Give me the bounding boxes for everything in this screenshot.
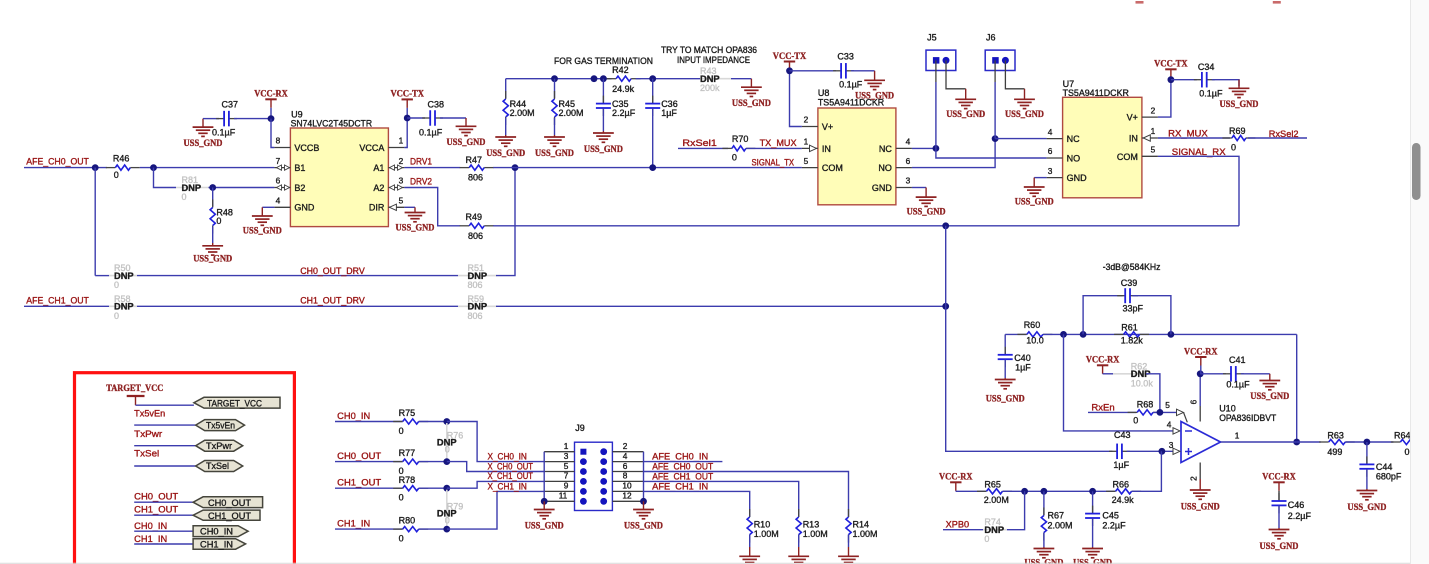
node RxEn — [1091, 403, 1114, 413]
junction — [649, 75, 656, 82]
pin 5 — [1165, 400, 1187, 422]
svg-text:C43: C43 — [1114, 430, 1131, 440]
svg-text:COM: COM — [1117, 152, 1138, 162]
svg-text:X_CH0_OUT: X_CH0_OUT — [488, 461, 534, 471]
svg-text:8: 8 — [276, 136, 281, 146]
wire — [749, 535, 751, 547]
annotation red box — [75, 373, 295, 564]
svg-text:2.00M: 2.00M — [984, 495, 1009, 505]
capacitor C40 — [998, 347, 1032, 373]
svg-text:5: 5 — [1165, 400, 1170, 410]
node CH1_IN — [134, 534, 167, 544]
ground — [1015, 178, 1054, 208]
svg-text:INPUT IMPEDANCE: INPUT IMPEDANCE — [677, 55, 750, 65]
capacitor C38 — [419, 100, 444, 138]
svg-text:10: 10 — [622, 481, 632, 491]
resistor R44 — [503, 79, 535, 135]
wire — [1212, 80, 1239, 86]
ground — [1220, 80, 1259, 110]
wire — [1003, 490, 1116, 492]
node DRV2 — [410, 177, 432, 187]
svg-text:X_CH1_IN: X_CH1_IN — [488, 481, 527, 491]
svg-text:C39: C39 — [1121, 278, 1138, 288]
junction — [1060, 331, 1067, 338]
ground — [1005, 89, 1044, 120]
wire — [1158, 80, 1171, 117]
svg-text:2.00M: 2.00M — [1048, 520, 1073, 530]
wire — [994, 60, 996, 138]
svg-text:TS5A9411DCKR: TS5A9411DCKR — [1063, 88, 1130, 98]
wire — [643, 452, 645, 502]
svg-text:R49: R49 — [466, 212, 483, 222]
wire — [1132, 296, 1171, 335]
resistor R64 — [1391, 431, 1426, 458]
junction — [1168, 76, 1175, 83]
svg-text:CH1_IN: CH1_IN — [134, 534, 167, 544]
svg-text:7: 7 — [276, 156, 281, 166]
svg-text:USS_GND: USS_GND — [907, 208, 946, 218]
svg-text:TARGET_VCC: TARGET_VCC — [207, 399, 262, 409]
svg-text:0.1µF: 0.1µF — [1226, 379, 1250, 389]
svg-text:6: 6 — [623, 461, 628, 471]
svg-text:XPB0: XPB0 — [946, 520, 969, 530]
junction — [1021, 488, 1028, 495]
svg-text:0: 0 — [399, 426, 404, 436]
svg-text:TxPwr: TxPwr — [206, 441, 232, 451]
wire — [440, 117, 466, 119]
junction — [933, 145, 940, 152]
node TxPwr — [134, 429, 162, 439]
svg-text:VCC-RX: VCC-RX — [254, 90, 288, 100]
wire — [95, 275, 109, 277]
artifact red mark — [1273, 1, 1281, 4]
svg-text:Tx5vEn: Tx5vEn — [134, 408, 165, 418]
svg-text:TxSel: TxSel — [206, 461, 229, 471]
op-amp U10 OPA836IDBVT — [1181, 404, 1277, 463]
svg-text:USS_GND: USS_GND — [946, 110, 985, 120]
svg-text:-3dB@584KHz: -3dB@584KHz — [1103, 262, 1161, 272]
node RX_MUX — [1168, 129, 1208, 139]
svg-text:0.1µF: 0.1µF — [1199, 89, 1223, 99]
power VCC-RX — [1262, 473, 1296, 501]
svg-text:24.9k: 24.9k — [1112, 495, 1135, 505]
svg-text:USS_GND: USS_GND — [243, 227, 282, 237]
svg-text:VCC-TX: VCC-TX — [1154, 60, 1188, 70]
svg-text:C33: C33 — [837, 52, 854, 62]
ground — [584, 131, 623, 155]
wire — [24, 305, 109, 307]
svg-text:RxEn: RxEn — [1091, 403, 1114, 413]
svg-text:0: 0 — [216, 216, 221, 226]
wire — [1132, 451, 1162, 491]
wire — [798, 535, 800, 547]
svg-text:6: 6 — [906, 156, 911, 166]
junction — [92, 164, 99, 171]
wire — [636, 78, 700, 80]
resistor R81 (DNP) — [176, 175, 209, 202]
wire — [1004, 360, 1006, 379]
svg-text:NC: NC — [1067, 134, 1080, 144]
junction — [1293, 439, 1300, 446]
ground — [525, 501, 564, 531]
wire — [134, 514, 193, 516]
svg-text:6: 6 — [276, 176, 281, 186]
svg-text:8: 8 — [623, 471, 628, 481]
pin 3 arrow — [1169, 440, 1180, 455]
svg-text:5: 5 — [564, 461, 569, 471]
svg-text:7: 7 — [564, 471, 569, 481]
resistor R70 — [722, 134, 755, 163]
svg-text:NC: NC — [879, 144, 892, 154]
svg-text:0: 0 — [1231, 143, 1236, 153]
junction — [1364, 439, 1371, 446]
wire — [1199, 374, 1201, 422]
svg-text:VCC-TX: VCC-TX — [773, 52, 807, 62]
svg-text:VCC-TX: VCC-TX — [390, 90, 424, 100]
wire — [203, 118, 219, 120]
viewer bottom border — [0, 562, 1410, 564]
node CH1_IN — [337, 518, 370, 528]
svg-text:2: 2 — [1151, 105, 1156, 115]
junction — [600, 75, 607, 82]
svg-text:C46: C46 — [1288, 500, 1305, 510]
svg-text:USS_GND: USS_GND — [855, 92, 894, 102]
ground — [1181, 479, 1220, 513]
wire — [335, 487, 403, 489]
svg-text:0.1µF: 0.1µF — [839, 80, 863, 90]
ground — [907, 188, 946, 218]
ground — [788, 547, 809, 564]
capacitor C44 — [1359, 456, 1402, 481]
wire — [912, 139, 995, 168]
resistor R48 — [210, 200, 233, 234]
wire — [1034, 177, 1046, 179]
svg-text:CH1_IN: CH1_IN — [200, 539, 233, 549]
svg-text:VCCA: VCCA — [359, 143, 384, 153]
pin 6 label — [1189, 399, 1199, 404]
node CH0_OUT_DRV — [300, 266, 365, 276]
resistor R59 (DNP) — [458, 294, 497, 321]
svg-text:USS_GND: USS_GND — [1250, 392, 1289, 402]
svg-text:R65: R65 — [984, 479, 1001, 489]
junction — [942, 303, 949, 310]
power TARGET_VCC — [106, 384, 163, 405]
svg-text:12: 12 — [622, 491, 632, 501]
svg-text:CH1_OUT: CH1_OUT — [337, 477, 382, 487]
svg-text:A1: A1 — [373, 163, 384, 173]
svg-text:2.00M: 2.00M — [510, 108, 535, 118]
svg-text:AFE_CH0_OUT: AFE_CH0_OUT — [26, 157, 89, 167]
svg-text:USS_GND: USS_GND — [396, 224, 435, 234]
svg-text:J9: J9 — [575, 423, 585, 433]
svg-text:0: 0 — [182, 192, 187, 202]
wire — [419, 487, 447, 489]
port TARGET_VCC — [194, 397, 280, 408]
wire — [1007, 491, 1025, 529]
junction — [649, 164, 656, 171]
svg-text:C41: C41 — [1229, 355, 1246, 365]
svg-text:R47: R47 — [466, 155, 483, 165]
svg-text:1: 1 — [564, 441, 569, 451]
svg-text:R77: R77 — [399, 448, 416, 458]
wire — [956, 490, 987, 492]
node CH0_IN — [337, 411, 370, 421]
svg-text:V+: V+ — [822, 122, 833, 132]
svg-text:R80: R80 — [399, 516, 416, 526]
svg-text:5: 5 — [399, 196, 404, 206]
svg-text:USS_GND: USS_GND — [184, 139, 223, 149]
svg-text:VCC-RX: VCC-RX — [1086, 356, 1120, 366]
svg-text:1µF: 1µF — [1113, 460, 1129, 470]
wire — [790, 70, 837, 72]
svg-text:0: 0 — [114, 311, 119, 321]
power VCC-RX — [254, 90, 288, 119]
resistor R42 — [607, 65, 641, 94]
junction — [1197, 370, 1204, 377]
svg-text:VCC-RX: VCC-RX — [1262, 473, 1296, 483]
svg-text:1: 1 — [399, 136, 404, 146]
resistor R49 — [460, 212, 494, 241]
wire — [134, 530, 193, 532]
junction — [591, 75, 598, 82]
wire — [137, 305, 458, 307]
node X_CH0_IN — [488, 451, 527, 461]
svg-text:USS_GND: USS_GND — [1181, 503, 1220, 513]
capacitor C33 — [833, 52, 863, 90]
svg-text:C37: C37 — [222, 100, 239, 110]
junction — [640, 498, 647, 505]
wire — [946, 306, 1113, 451]
wire — [496, 168, 515, 276]
wire — [747, 147, 802, 149]
junction — [541, 498, 548, 505]
annotation — [661, 45, 757, 55]
resistor R14 — [846, 509, 878, 543]
junction — [443, 485, 450, 492]
svg-text:RxSel1: RxSel1 — [682, 138, 717, 148]
port Tx5vEn — [196, 420, 245, 431]
wire — [731, 78, 751, 80]
svg-text:CH0_IN: CH0_IN — [337, 411, 370, 421]
svg-text:R66: R66 — [1113, 479, 1130, 489]
svg-text:Tx5vEn: Tx5vEn — [206, 420, 235, 430]
wire — [1366, 469, 1368, 489]
artifact red mark — [1136, 1, 1144, 4]
wire — [262, 206, 274, 208]
node TxSel — [134, 448, 159, 458]
wire — [1005, 333, 1026, 335]
svg-text:R42: R42 — [612, 65, 629, 75]
svg-text:3: 3 — [399, 176, 404, 186]
svg-text:CH0_OUT: CH0_OUT — [208, 498, 252, 508]
power VCC-RX — [939, 473, 973, 492]
svg-text:CH0_IN: CH0_IN — [134, 521, 167, 531]
wire — [543, 452, 545, 502]
svg-text:USS_GND: USS_GND — [584, 145, 623, 155]
svg-text:2: 2 — [1189, 476, 1199, 481]
svg-text:TxPwr: TxPwr — [134, 429, 162, 439]
svg-text:1: 1 — [804, 137, 809, 147]
svg-text:C40: C40 — [1014, 353, 1031, 363]
junction — [443, 458, 450, 465]
svg-text:1.00M: 1.00M — [853, 529, 878, 539]
svg-text:GND: GND — [872, 183, 893, 193]
svg-text:VCC-RX: VCC-RX — [1184, 347, 1218, 357]
wire — [154, 168, 177, 188]
wire — [1200, 373, 1226, 375]
svg-text:IN: IN — [822, 144, 831, 154]
svg-text:9: 9 — [564, 481, 569, 491]
wire — [1158, 137, 1230, 139]
svg-text:0: 0 — [445, 444, 450, 454]
svg-text:TX_MUX: TX_MUX — [760, 138, 797, 148]
wire — [94, 168, 96, 276]
resistor R67 — [1041, 508, 1072, 541]
svg-text:2: 2 — [399, 156, 404, 166]
svg-text:24.9k: 24.9k — [612, 84, 635, 94]
wire — [493, 225, 1239, 227]
wire — [137, 275, 458, 277]
svg-text:2: 2 — [623, 441, 628, 451]
svg-text:0.1µF: 0.1µF — [419, 127, 443, 137]
junction — [1089, 488, 1096, 495]
pin 4 arrow — [1167, 419, 1180, 434]
resistor R47 — [460, 155, 494, 183]
svg-text:A2: A2 — [373, 183, 384, 193]
svg-text:680pF: 680pF — [1376, 471, 1402, 481]
wire — [1345, 441, 1393, 443]
ground — [535, 135, 574, 159]
svg-text:0.1µF: 0.1µF — [212, 127, 236, 137]
svg-text:USS_GND: USS_GND — [193, 254, 232, 264]
wire — [271, 119, 274, 148]
ground — [838, 547, 859, 564]
node CH0_OUT — [337, 451, 382, 461]
svg-text:USS_GND: USS_GND — [1260, 542, 1299, 552]
resistor R75 — [393, 408, 428, 436]
svg-text:4: 4 — [1167, 419, 1172, 429]
wire — [1416, 441, 1429, 443]
pin 2 label — [1189, 476, 1199, 481]
wire — [1092, 518, 1094, 547]
wire — [644, 491, 750, 517]
svg-text:R75: R75 — [399, 408, 416, 418]
svg-text:R60: R60 — [1024, 320, 1041, 330]
node X_CH0_OUT — [488, 461, 534, 471]
wire — [404, 118, 407, 148]
resistor R45 — [552, 79, 584, 135]
junction — [1080, 331, 1087, 338]
ground — [855, 71, 894, 102]
svg-text:B1: B1 — [294, 163, 305, 173]
svg-text:3: 3 — [1169, 440, 1174, 450]
svg-text:SN74LVC2T45DCTR: SN74LVC2T45DCTR — [291, 118, 373, 128]
svg-text:X_CH0_IN: X_CH0_IN — [488, 451, 527, 461]
node AFE_CH1_OUT — [652, 471, 713, 481]
svg-text:DIR: DIR — [369, 203, 385, 213]
resistor R77 — [393, 448, 428, 476]
wire — [1241, 373, 1270, 375]
wire — [1043, 533, 1045, 548]
wire — [1278, 506, 1280, 528]
svg-text:V+: V+ — [1127, 113, 1138, 123]
svg-text:U8: U8 — [818, 88, 830, 98]
annotation — [677, 55, 750, 65]
junction — [1168, 331, 1175, 338]
svg-text:0: 0 — [445, 515, 450, 525]
svg-text:4: 4 — [906, 137, 911, 147]
wire — [134, 445, 196, 447]
capacitor C41 — [1223, 355, 1250, 389]
resistor R76 (DNP) — [437, 423, 463, 460]
svg-text:499: 499 — [1327, 447, 1342, 457]
wire — [1171, 79, 1197, 81]
resistor R61 — [1114, 323, 1149, 346]
ground — [396, 207, 435, 233]
svg-text:0: 0 — [1405, 447, 1410, 457]
node SIGNAL_RX — [1172, 147, 1226, 157]
svg-text:TARGET_VCC: TARGET_VCC — [106, 384, 163, 394]
svg-text:USS_GND: USS_GND — [525, 522, 564, 532]
wire — [419, 421, 447, 423]
wire — [419, 461, 447, 463]
wire — [404, 206, 415, 208]
svg-text:1µF: 1µF — [1015, 363, 1031, 373]
svg-text:GND: GND — [1067, 173, 1088, 183]
wire — [678, 147, 728, 149]
port TxPwr — [196, 440, 243, 451]
ground — [193, 243, 232, 264]
node XPB0 — [946, 520, 969, 530]
pin 1 label — [1235, 431, 1240, 441]
wire — [1297, 441, 1321, 443]
junction — [1041, 488, 1048, 495]
svg-text:10.0: 10.0 — [1026, 336, 1044, 346]
junction — [992, 135, 999, 142]
node CH1_OUT — [337, 477, 382, 487]
ground — [243, 207, 282, 236]
wire — [335, 421, 403, 423]
wire — [1064, 334, 1173, 431]
node AFE_CH0_OUT — [652, 462, 713, 472]
svg-text:FOR GAS TERMINATION: FOR GAS TERMINATION — [554, 56, 653, 66]
svg-text:USS_GND: USS_GND — [535, 149, 574, 159]
svg-text:0: 0 — [399, 493, 404, 503]
junction — [551, 75, 558, 82]
junction — [268, 115, 275, 122]
svg-text:J5: J5 — [927, 32, 937, 42]
wire — [134, 424, 196, 426]
svg-text:USS_GND: USS_GND — [624, 522, 663, 532]
port CH1_IN — [193, 539, 246, 550]
wire — [945, 226, 947, 306]
resistor R80 — [393, 516, 428, 544]
wire — [404, 167, 460, 169]
svg-text:C45: C45 — [1102, 511, 1119, 521]
svg-text:USS_GND: USS_GND — [447, 138, 486, 148]
node Tx5vEn — [134, 408, 165, 418]
svg-text:CH1_OUT_DRV: CH1_OUT_DRV — [300, 296, 365, 306]
node DRV1 — [410, 157, 432, 167]
svg-text:6: 6 — [1189, 399, 1199, 404]
power VCC-RX — [1184, 347, 1218, 374]
svg-text:DRV2: DRV2 — [410, 177, 432, 187]
capacitor C37 — [212, 100, 238, 138]
annotation — [554, 56, 653, 66]
node AFE_CH1_IN — [652, 481, 708, 491]
ground — [986, 378, 1025, 405]
svg-text:R13: R13 — [803, 519, 820, 529]
